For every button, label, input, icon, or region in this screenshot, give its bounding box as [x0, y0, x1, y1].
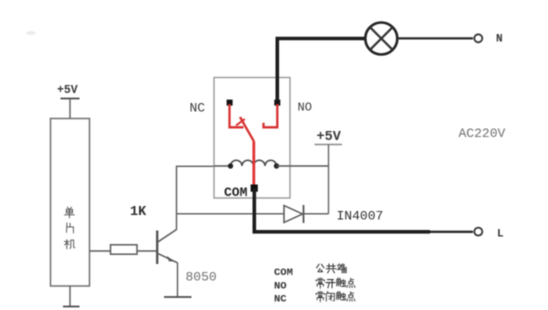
svg-text:+5V: +5V	[57, 84, 78, 97]
transistor Q1 emitter arrow	[167, 256, 175, 262]
label 单 (MCU text)	[64, 207, 74, 218]
lamp (indicator) circle	[365, 23, 397, 55]
legend 共	[326, 264, 336, 273]
COM node dot	[251, 185, 258, 192]
terminal L circle	[474, 228, 482, 236]
wire diode cathode to +5V vertical	[304, 213, 329, 215]
lamp cross stroke 1	[370, 27, 393, 50]
transistor Q1 collector diagonal	[158, 230, 177, 243]
diode D1 cathode bar	[303, 205, 305, 223]
svg-text:COM: COM	[224, 185, 248, 200]
svg-text:+5V: +5V	[317, 130, 342, 145]
legend 点 (row3)	[347, 292, 355, 301]
svg-text:8050: 8050	[186, 270, 217, 285]
red wire armature to COM	[252, 142, 255, 188]
legend 常 (row3)	[316, 291, 324, 302]
contact NC red bracket	[230, 104, 244, 127]
microcontroller U1 box	[51, 119, 90, 287]
wire resistor to base	[137, 250, 157, 252]
ground (emitter) wire	[177, 263, 179, 297]
contact NO dot	[274, 100, 280, 106]
thick wire NO up and to lamp	[277, 39, 365, 102]
contact NC dot	[227, 100, 233, 106]
legend 闭	[326, 291, 334, 301]
contact NO red bracket	[264, 104, 278, 127]
svg-text:AC220V: AC220V	[459, 126, 506, 141]
legend 触 (row3)	[337, 291, 346, 300]
transistor Q1 base bar	[156, 231, 158, 265]
label 机 (MCU text)	[64, 240, 74, 249]
svg-text:NO: NO	[274, 281, 287, 293]
legend 端	[337, 264, 347, 273]
relay K1 outline box	[214, 78, 290, 199]
faint smudge artifact	[26, 31, 36, 35]
svg-text:NO: NO	[298, 101, 312, 115]
lamp cross stroke 2	[370, 27, 393, 50]
relay armature (moving contact)	[240, 117, 254, 142]
transistor Q1 emitter diagonal	[158, 254, 178, 263]
svg-text:N: N	[496, 34, 503, 46]
legend 开	[326, 280, 335, 288]
coil node dot left	[228, 163, 233, 168]
relay coil L1 humps	[231, 160, 277, 166]
wire collector up to coil-left line	[177, 166, 215, 230]
wire +5V to MCU box	[69, 99, 71, 119]
relay coil axis wire left	[214, 165, 231, 167]
svg-text:NC: NC	[190, 101, 206, 116]
wire collector junction to diode anode	[177, 213, 285, 215]
svg-text:1K: 1K	[130, 205, 147, 220]
ground (MCU) wire	[69, 286, 71, 306]
svg-text:NC: NC	[274, 294, 287, 306]
wire lamp to terminal N	[397, 37, 473, 39]
diode D1 triangle	[284, 206, 303, 223]
wire +5V down to diode cathode	[328, 145, 330, 214]
label 片 (MCU text)	[67, 223, 74, 233]
coil node dot right	[274, 163, 279, 168]
resistor R1 body	[111, 245, 138, 254]
wire MCU to resistor	[90, 250, 111, 252]
svg-text:L: L	[497, 229, 504, 241]
svg-text:COM: COM	[274, 267, 293, 279]
legend 常	[316, 278, 324, 289]
legend 公	[317, 264, 324, 272]
ground (MCU) bar	[63, 306, 80, 308]
thick wire COM down and right to L	[254, 188, 430, 232]
armature tick	[236, 119, 245, 126]
wire coil right to +5V vertical	[277, 165, 329, 167]
svg-text:IN4007: IN4007	[337, 209, 384, 224]
legend 触	[337, 278, 346, 287]
legend 点	[347, 278, 355, 287]
ground (emitter) bar	[164, 296, 192, 298]
terminal N circle	[474, 34, 482, 42]
wire to terminal L	[430, 231, 473, 233]
power +5V (relay supply) bar	[315, 144, 343, 146]
power +5V (MCU supply) bar	[61, 98, 80, 100]
